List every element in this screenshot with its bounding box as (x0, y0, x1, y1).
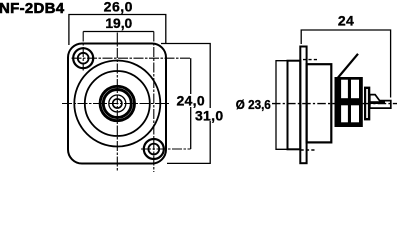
center pin circle (113, 99, 122, 108)
thick ring inner (socket body) (103, 90, 131, 118)
flange front view (68, 44, 166, 164)
hex white cell top-left (341, 80, 348, 99)
svg-text:26,0: 26,0 (104, 0, 133, 14)
svg-text:NF-2DB4: NF-2DB4 (0, 0, 65, 17)
hole TL vertical centerline / 19,0 left extension (82, 32, 84, 71)
ground solder tag diagonal (336, 54, 358, 80)
white backing for 24,0 text (176, 94, 207, 107)
dimension line 31,0 vertical with extensions (161, 44, 210, 164)
dimension Ø 23,6 bracket (276, 61, 300, 150)
side view centerline dash-dot (272, 103, 397, 105)
mounting hole top-left inner (78, 53, 89, 64)
hole TL horizontal centerline / 24,0 top extension (72, 57, 191, 59)
side view body sleeve (307, 64, 332, 142)
svg-text:Ø 23,6: Ø 23,6 (236, 97, 271, 112)
washer white sliver (366, 89, 368, 118)
mounting hole bottom-right outer (144, 139, 164, 159)
inner circle (109, 95, 126, 112)
hidden edge dashed bottom (barrel behind plate) (301, 149, 317, 151)
dimension line 24 side view (301, 30, 390, 98)
hex white cell bottom-left (341, 105, 348, 122)
solder pin / tag (370, 95, 391, 109)
pin notch dark fill (371, 101, 386, 104)
svg-text:19,0: 19,0 (105, 16, 132, 31)
mounting hole top-left outer (73, 48, 93, 68)
white backing for 31,0 text (194, 108, 225, 121)
vertical centerline front view (116, 33, 118, 173)
side view washer block (364, 87, 370, 121)
hex white cell top-right (351, 80, 359, 99)
dimension line 19,0 (83, 31, 154, 33)
svg-text:24: 24 (338, 13, 354, 29)
side view hex nut block (335, 77, 363, 127)
horizontal centerline front view (62, 103, 170, 105)
dimension line 26,0 (69, 15, 166, 46)
side view barrel (Ø 23,6) (288, 61, 301, 150)
dimension line 24,0 vertical (190, 58, 192, 149)
mounting hole bottom-right inner (148, 144, 159, 155)
outer circle (74, 61, 160, 147)
svg-text:31,0: 31,0 (195, 108, 223, 124)
svg-text:24,0: 24,0 (176, 93, 204, 109)
hex white cell bottom-right (351, 105, 359, 122)
hole BR horizontal centerline / 24,0 bottom extension (141, 148, 191, 150)
side view flange plate (300, 47, 306, 164)
hidden edge dashed top (barrel behind plate) (303, 59, 318, 61)
second circle (85, 71, 150, 136)
hole BR vertical centerline / 19,0 right extension (153, 32, 155, 173)
thick ring outer (socket body) (100, 86, 134, 120)
